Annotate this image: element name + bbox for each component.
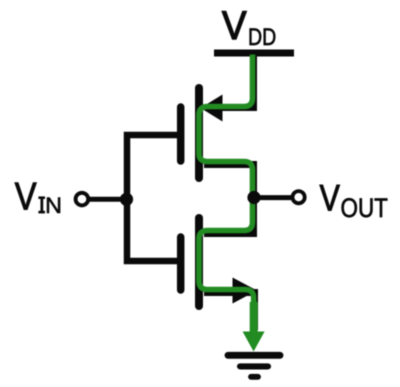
- ground bar 1: [228, 352, 280, 359]
- transistor Q2 NMOS channel bar: [195, 218, 203, 306]
- output terminal circle: [293, 191, 305, 203]
- ground bar 3: [251, 374, 258, 380]
- wire PMOS drain to output node: [204, 165, 254, 201]
- transistor Q2 NMOS source arrow: [233, 278, 258, 304]
- VDD rail bar: [214, 50, 294, 57]
- transistor Q1 PMOS channel bar: [195, 88, 203, 178]
- wire output node to NMOS drain: [204, 195, 254, 234]
- wire VDD to PMOS source: [208, 54, 254, 108]
- wire output node to VOUT terminal: [254, 195, 292, 200]
- input terminal circle: [76, 193, 89, 206]
- green arrowhead at ground: [243, 332, 265, 352]
- wire NMOS source to ground: [204, 293, 255, 331]
- label VOUT: [320, 176, 388, 223]
- wire VIN to gate junction: [88, 197, 127, 202]
- svg-text:V: V: [222, 4, 247, 48]
- svg-text:OUT: OUT: [341, 193, 388, 223]
- svg-text:DD: DD: [248, 24, 276, 51]
- svg-text:V: V: [320, 176, 340, 218]
- label VDD: [222, 4, 276, 51]
- label VIN: [15, 176, 62, 219]
- svg-text:V: V: [15, 176, 37, 219]
- green arrow shaft to ground: [250, 302, 258, 336]
- junction dot output node: [247, 191, 260, 204]
- ground bar 2: [240, 363, 268, 369]
- wire gate vertical with both gate stubs: [127, 135, 179, 261]
- junction dot input node: [120, 193, 133, 206]
- transistor Q1 PMOS source arrow: [201, 95, 223, 122]
- transistor Q1 PMOS gate bar: [177, 107, 185, 161]
- green current path wire VDD through PMOS and NMOS to ground: [199, 55, 254, 313]
- transistor Q2 NMOS gate bar: [177, 237, 185, 290]
